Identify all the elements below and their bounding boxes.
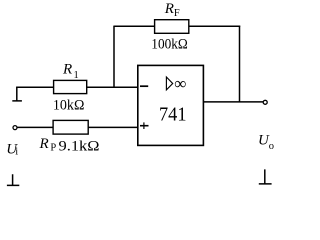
output terminal circle bbox=[263, 100, 267, 104]
svg-text:P: P bbox=[50, 143, 56, 154]
label RP 9.1kΩ bbox=[39, 136, 100, 155]
label RF bbox=[164, 1, 180, 19]
svg-text:1: 1 bbox=[74, 70, 79, 81]
output wire bbox=[204, 101, 264, 103]
label R1 bbox=[62, 62, 79, 81]
ground bottom left bbox=[7, 174, 19, 185]
svg-text:10kΩ: 10kΩ bbox=[53, 98, 85, 114]
svg-text:o: o bbox=[269, 141, 274, 152]
svg-text:741: 741 bbox=[159, 104, 187, 126]
wire input to RP bbox=[17, 126, 53, 128]
ground bottom right bbox=[259, 169, 272, 184]
minus input sign bbox=[140, 85, 148, 87]
ground left (inverting input) bbox=[12, 87, 22, 101]
wire ground to R1 bbox=[16, 86, 53, 88]
wire R1 to opamp bbox=[87, 86, 138, 88]
wire RP to opamp bbox=[88, 126, 138, 128]
wire feedback left vertical bbox=[113, 26, 115, 88]
op-amp U1 (741) box bbox=[138, 65, 204, 145]
wire feedback right vertical bbox=[239, 26, 241, 102]
svg-text:9.1kΩ: 9.1kΩ bbox=[59, 138, 100, 154]
label Uo bbox=[258, 132, 274, 152]
input terminal circle bbox=[13, 126, 17, 130]
svg-text:100kΩ: 100kΩ bbox=[151, 37, 188, 53]
svg-text:R: R bbox=[62, 62, 72, 78]
svg-text:F: F bbox=[174, 8, 180, 19]
wire feedback top left segment bbox=[114, 25, 155, 27]
plus input sign bbox=[140, 125, 149, 127]
resistor RP bbox=[53, 120, 88, 134]
label Ui bbox=[6, 142, 18, 158]
triangle infinity gain symbol bbox=[166, 77, 172, 90]
svg-text:∞: ∞ bbox=[174, 74, 186, 93]
resistor RF bbox=[155, 20, 189, 34]
svg-text:R: R bbox=[39, 136, 49, 152]
svg-text:R: R bbox=[164, 1, 174, 17]
wire feedback top right segment bbox=[189, 25, 240, 27]
svg-text:i: i bbox=[15, 147, 18, 158]
resistor R1 bbox=[54, 80, 87, 93]
